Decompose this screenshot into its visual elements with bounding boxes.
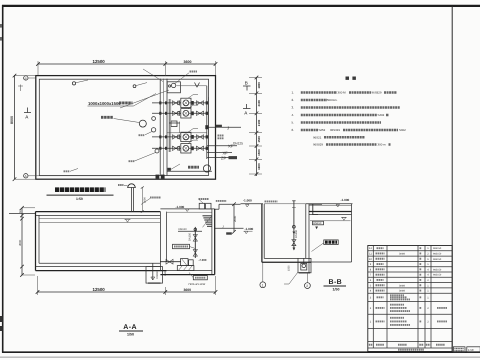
BB overflow pipe — [312, 204, 314, 214]
pump P4 body — [183, 145, 189, 151]
exit J valve — [205, 125, 208, 129]
pump P3 body — [183, 134, 189, 140]
BB pipe top tick — [292, 207, 296, 209]
AA tank top slab — [36, 211, 161, 213]
inter-pair cross pipe — [167, 132, 207, 134]
border frame bottom — [2, 351, 480, 353]
plan bottom wall sleeves — [156, 175, 160, 179]
pump P4 wall sleeve — [159, 147, 161, 150]
pump P2 body — [183, 110, 189, 116]
table header row — [369, 344, 373, 346]
svg-text:4.: 4. — [292, 113, 295, 117]
AA vent label leader — [141, 199, 150, 205]
suction header pipe — [168, 99, 170, 152]
top dimension line — [38, 63, 216, 65]
plan divider wall line1 — [159, 79, 161, 176]
check symbol V — [195, 83, 200, 88]
pump P3 header tee blob — [206, 135, 208, 138]
bottom scan line — [0, 356, 480, 358]
border frame left — [2, 5, 4, 353]
AA sump pit below floor — [146, 267, 163, 284]
plan divider wall line3 — [166, 79, 168, 176]
pipe exit XF1 — [207, 145, 237, 147]
AA stairs — [203, 215, 212, 217]
BB pipe circle — [293, 225, 296, 228]
svg-text:DN150: DN150 — [179, 228, 188, 231]
svg-text:DN150: DN150 — [188, 232, 191, 241]
BB pipe valve — [292, 240, 296, 246]
svg-text:S402: S402 — [378, 113, 385, 117]
table row lines — [368, 250, 452, 252]
BB axis bubble 2 — [306, 273, 308, 283]
note line 7 — [324, 136, 365, 139]
plan pump room floor line — [167, 170, 212, 172]
pump P2 header tee blob — [206, 112, 208, 115]
svg-text:A: A — [25, 174, 27, 178]
sump pump circle — [171, 83, 175, 87]
pump P2 wall sleeve — [159, 112, 161, 115]
sump pit square — [167, 82, 180, 93]
svg-text:3600: 3600 — [184, 288, 192, 292]
svg-text:6.: 6. — [292, 128, 295, 132]
pump P3 suction valve — [173, 135, 180, 139]
AA ground line left stub — [9, 213, 36, 215]
discharge header pipe — [206, 86, 208, 159]
top wall fitting circle 2 — [133, 85, 136, 88]
AA pipe valve 1 — [193, 235, 197, 242]
AA water level mark — [126, 219, 130, 222]
svg-text:96S150: 96S150 — [433, 274, 442, 277]
BB pit — [298, 258, 311, 272]
AA vent pipe tall — [130, 188, 132, 212]
sump leader out — [174, 73, 189, 84]
note line 8 — [326, 143, 377, 146]
AA right pipe J exit — [215, 227, 244, 229]
table bottom title — [398, 349, 424, 351]
title block box 1 — [453, 347, 465, 353]
pump P4 label leader — [188, 140, 193, 144]
pump P2 discharge valve — [197, 111, 204, 115]
BB ground line right — [306, 203, 353, 205]
AA pump room roof slab — [160, 208, 214, 210]
AA hatch label 检修孔 — [199, 198, 210, 200]
bell mouth circle b — [151, 128, 155, 132]
BB ground line mid — [264, 203, 306, 205]
plan divider wall line2 — [163, 79, 165, 176]
svg-text:-1.000: -1.000 — [341, 198, 350, 202]
AA pump room floor — [167, 270, 212, 272]
pump P3 discharge pipe — [189, 136, 207, 138]
svg-text:1800: 1800 — [257, 163, 261, 170]
pump unit P4 suction pipe — [152, 147, 181, 149]
inter-pair stub pipe — [169, 122, 180, 124]
svg-text:300 m: 300 m — [378, 143, 387, 147]
svg-text:5.: 5. — [292, 121, 295, 125]
svg-text:96S21: 96S21 — [313, 135, 322, 139]
AA pump foundation — [177, 266, 194, 271]
right dimension line plan — [256, 77, 258, 176]
svg-text:S252: S252 — [319, 128, 326, 132]
plan tank outer wall — [36, 76, 216, 180]
pipe exit ZP — [207, 156, 236, 158]
pump unit P1 suction pipe — [152, 102, 181, 104]
section marker A left — [27, 108, 29, 113]
left dimension line plan — [14, 75, 16, 179]
svg-text:96S829: 96S829 — [313, 143, 323, 147]
svg-text:1/50: 1/50 — [333, 287, 340, 291]
svg-text:B: B — [245, 80, 248, 85]
AA vent label 检修孔 — [150, 197, 161, 199]
svg-text:ZP: ZP — [221, 156, 226, 161]
AA boxed label pump base — [193, 276, 207, 280]
svg-text:-7.000: -7.000 — [199, 258, 207, 262]
BB tank floor — [309, 261, 352, 263]
BB dark label leader — [312, 243, 324, 252]
AA ground line right lower — [215, 208, 219, 210]
AA pump body section — [181, 259, 189, 266]
pump unit P3 suction pipe — [152, 136, 181, 138]
small tick below bubble — [20, 85, 22, 92]
AA water line — [40, 221, 161, 223]
AA right pipe label box — [226, 232, 232, 234]
AA bottom dim line — [38, 291, 216, 293]
svg-text:96S150: 96S150 — [433, 268, 442, 271]
pump P2 label leader — [188, 105, 193, 109]
BB center pipe — [293, 201, 295, 250]
svg-text:1:50: 1:50 — [76, 197, 83, 201]
plan title underline — [47, 194, 114, 196]
sump small circle — [169, 85, 171, 87]
AA tank floor — [39, 262, 160, 264]
svg-text:Y90S-4/1.1KW: Y90S-4/1.1KW — [188, 283, 206, 286]
svg-text:DN125: DN125 — [233, 141, 243, 145]
svg-text:DN150: DN150 — [313, 222, 322, 225]
svg-text:4500: 4500 — [18, 239, 22, 246]
AA label outdoor ground — [216, 200, 227, 202]
section marker A right — [246, 104, 248, 109]
pump P4 suction valve — [173, 146, 180, 150]
sump pump outlet line — [176, 85, 206, 87]
svg-text:1.: 1. — [292, 91, 295, 95]
AA vent cap leader — [124, 185, 128, 187]
svg-text:DN80: DN80 — [399, 290, 406, 293]
AA pump room right wall — [211, 209, 213, 275]
axis bubble bottom-left — [24, 174, 28, 178]
tank leader label 2 — [129, 160, 135, 162]
svg-text:A-A: A-A — [123, 324, 137, 331]
BB divider wall — [305, 204, 307, 259]
pump P1 discharge pipe — [189, 102, 207, 104]
svg-text:500: 500 — [19, 208, 22, 213]
pump P3 discharge valve — [197, 135, 204, 139]
top wall fitting circle 1 — [72, 82, 75, 85]
AA vent dim line — [141, 188, 143, 212]
AA ground line right upper — [219, 203, 241, 205]
svg-text:96S319: 96S319 — [330, 128, 340, 132]
pump P1 discharge valve — [197, 101, 204, 105]
plan title blocks — [55, 187, 106, 192]
table column lines — [372, 246, 374, 349]
sump pit leader — [134, 94, 157, 107]
BB pump room floor — [264, 257, 298, 259]
pump P3 base pad — [181, 132, 191, 141]
svg-text:B-B: B-B — [329, 279, 343, 286]
pump P1 body — [183, 100, 189, 106]
AA pit pipe — [152, 263, 154, 280]
rotated label block — [218, 135, 225, 137]
AA outer bottom tank — [36, 270, 167, 272]
access hole label bottom — [188, 166, 199, 169]
svg-text:2: 2 — [306, 284, 308, 288]
pump P4 base pad — [181, 144, 191, 153]
access hole circle bottom-right — [203, 165, 210, 172]
AA vertical pipe — [194, 227, 196, 258]
svg-text:2.: 2. — [292, 98, 295, 102]
svg-text:DN200: DN200 — [156, 271, 159, 279]
svg-text:3.: 3. — [292, 106, 295, 110]
svg-text:DN80: DN80 — [399, 252, 406, 255]
BB tank top slab — [309, 211, 352, 213]
BB boxed DN150 — [313, 221, 324, 225]
BB pipe arrow 2 — [293, 248, 296, 251]
svg-text:1000x1000x1500: 1000x1000x1500 — [88, 101, 121, 106]
tank leader label 3 — [64, 170, 70, 172]
bell mouth circle a — [152, 117, 156, 121]
left edge fold marks — [0, 24, 2, 28]
BB dark boxed label — [324, 240, 338, 245]
svg-text:-1.000: -1.000 — [176, 205, 185, 209]
AA tank left wall — [35, 212, 37, 271]
materials table outer — [368, 246, 452, 352]
svg-text:12500: 12500 — [93, 59, 106, 64]
border frame top — [2, 5, 480, 7]
svg-text:500mm.: 500mm. — [327, 98, 338, 102]
BB pit leader — [289, 272, 298, 284]
tank leader line 2 — [135, 153, 156, 162]
BB pit pump — [301, 264, 307, 271]
axis bubble top-left — [24, 76, 28, 80]
AA pipe valve 2 — [193, 250, 197, 257]
AA suction pipe horizontal — [160, 261, 181, 263]
pump P2 suction valve — [173, 111, 180, 115]
svg-text:2100: 2100 — [257, 119, 261, 126]
AA vent dome cap — [128, 184, 135, 188]
pump P4 discharge valve — [197, 146, 204, 150]
pump room bottom-left drain — [168, 168, 171, 171]
pump P1 header tee blob — [206, 101, 208, 104]
title block box 2 — [467, 347, 480, 353]
svg-text:2100: 2100 — [257, 100, 261, 107]
BB label outdoor ground — [265, 200, 278, 202]
pump P4 check valve — [191, 146, 193, 150]
svg-text:96S150: 96S150 — [433, 252, 442, 255]
pump P4 header tee blob — [206, 147, 208, 150]
svg-text:12500: 12500 — [93, 287, 106, 292]
svg-text:B: B — [25, 76, 27, 80]
title column divider — [451, 6, 453, 352]
pump P1 check valve — [191, 101, 193, 105]
pump unit P2 suction pipe — [152, 112, 181, 114]
inter-pair meter box — [171, 121, 177, 127]
BB ground line left — [241, 203, 264, 205]
svg-text:1800: 1800 — [257, 82, 261, 89]
BB tank right break — [351, 204, 353, 262]
svg-text:3600: 3600 — [184, 60, 192, 64]
svg-text:-1.000: -1.000 — [243, 198, 252, 202]
svg-text:DN150: DN150 — [295, 229, 298, 238]
tank leader line 1 — [145, 132, 152, 135]
pump P4 discharge pipe — [189, 147, 207, 149]
svg-text:8000: 8000 — [10, 116, 14, 124]
diagonal pipe across tank corner — [143, 69, 163, 82]
svg-text:J: J — [227, 125, 229, 130]
AA pipe top circle — [194, 228, 197, 231]
svg-text:DN80: DN80 — [399, 284, 406, 287]
svg-text:1500: 1500 — [287, 265, 290, 271]
AA hatch label leader — [199, 200, 203, 204]
pump P1 suction valve — [173, 101, 180, 105]
tank manhole label — [101, 116, 113, 119]
pump P3 check valve — [191, 135, 193, 139]
notes title — [346, 76, 358, 79]
svg-text:1500: 1500 — [257, 149, 261, 156]
svg-text:1:50: 1:50 — [468, 348, 474, 352]
AA right vdim line — [233, 204, 235, 232]
svg-text:-1.000: -1.000 — [245, 227, 254, 231]
BB axis bubble 1 — [262, 262, 264, 282]
pipe exit XF2 — [207, 152, 232, 154]
plan tank inner wall — [39, 79, 208, 175]
pump P2 base pad — [181, 109, 191, 118]
tank leader label 1 — [139, 134, 145, 136]
AA divider wall — [159, 212, 161, 271]
svg-text:1/50: 1/50 — [127, 332, 134, 336]
pump P3 label leader — [188, 129, 193, 133]
pump P1 wall sleeve — [159, 101, 161, 104]
pipe exit J — [207, 126, 241, 128]
AA suction valve — [166, 259, 173, 264]
pump P1 label leader — [188, 95, 193, 99]
svg-text:96S829: 96S829 — [372, 91, 382, 95]
AA left dim line — [21, 208, 23, 275]
svg-text:96S150: 96S150 — [433, 247, 442, 250]
svg-text:S402: S402 — [399, 128, 406, 132]
top dim extension lines — [37, 61, 39, 75]
AA horizontal pipe upper — [178, 230, 202, 232]
svg-text:1: 1 — [262, 283, 264, 287]
svg-text:1500: 1500 — [164, 270, 167, 276]
BB pipe arrow — [293, 232, 296, 235]
pump P2 discharge pipe — [189, 112, 207, 114]
BB tank water mark — [342, 217, 346, 220]
svg-text:2000: 2000 — [233, 215, 237, 222]
pump P3 wall sleeve — [159, 135, 161, 138]
svg-text:96S150: 96S150 — [433, 258, 442, 261]
BB pump room left wall — [261, 204, 263, 262]
bell mouth circle c — [155, 149, 159, 153]
pump P1 base pad — [181, 98, 191, 107]
svg-text:1500: 1500 — [257, 136, 261, 143]
tank manhole circle — [139, 120, 146, 127]
AA access hatch boxes — [199, 203, 204, 209]
svg-text:300 M: 300 M — [338, 91, 347, 95]
pump P2 check valve — [191, 111, 193, 115]
AA ground step — [218, 204, 220, 209]
AA boxed label 1 — [173, 244, 190, 248]
